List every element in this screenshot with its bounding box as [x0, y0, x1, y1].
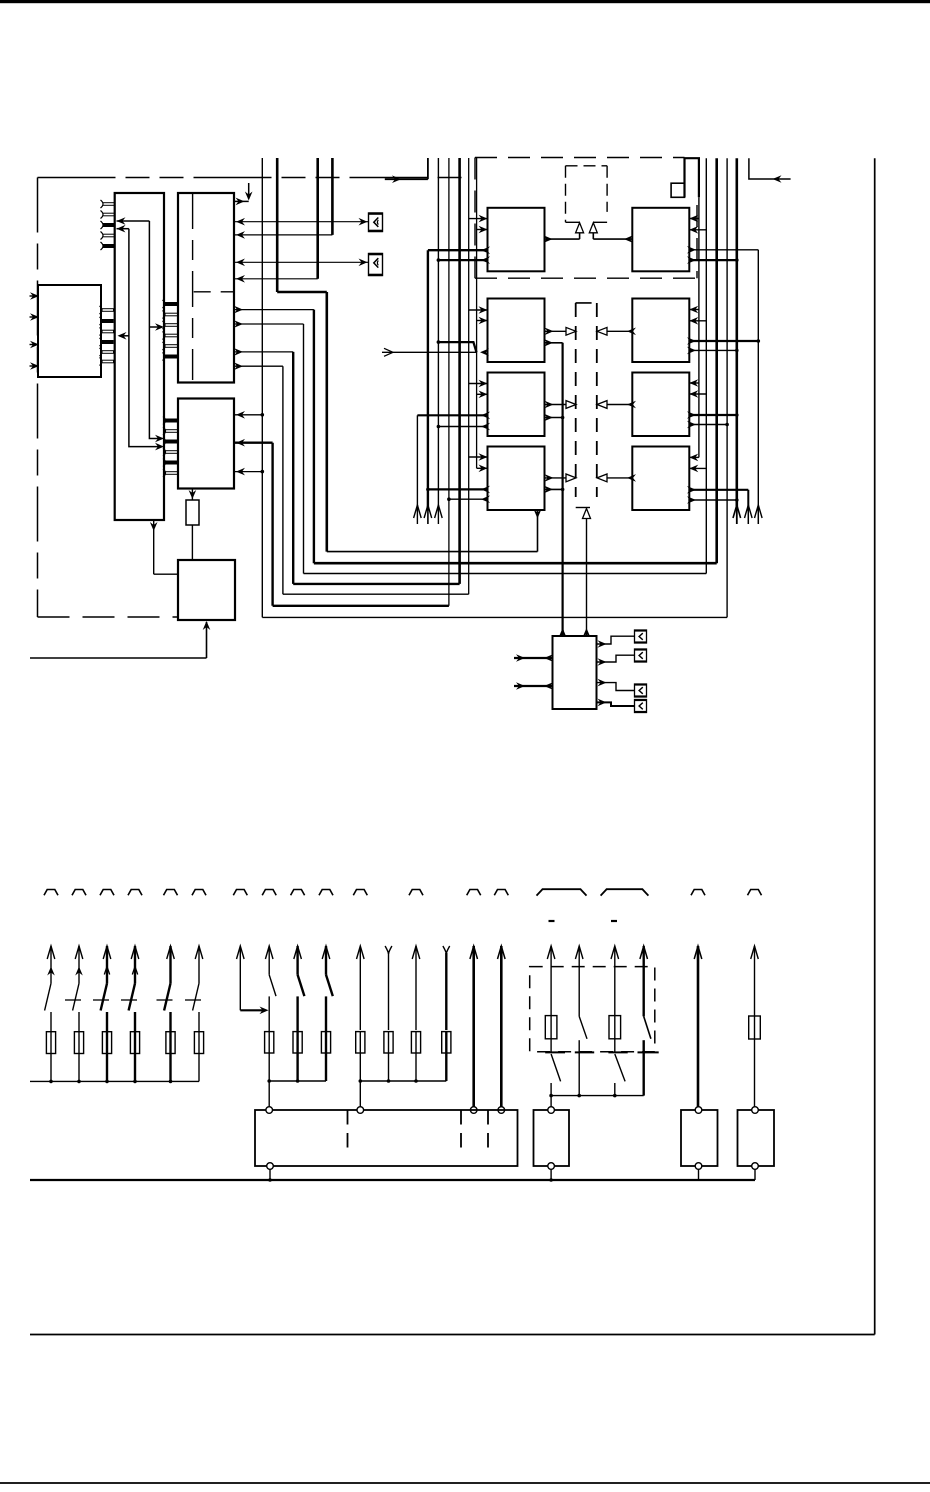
wire F5 riser arrow	[167, 946, 175, 959]
wire into module A6 top 1 thick	[559, 628, 567, 637]
terminal circle on X20 b2	[357, 1107, 364, 1114]
down arrow onto A3 top	[248, 183, 250, 199]
wire F11 riser arrow	[357, 946, 365, 959]
wire relay K3 output a thick	[417, 414, 487, 416]
switch S3 contact tick	[93, 999, 109, 1001]
switch S6 contact tick	[185, 999, 201, 1001]
switch S5 blade	[164, 983, 170, 1010]
wire relay K1 to triangle	[545, 238, 580, 240]
wire F10 riser arrow	[322, 946, 330, 959]
wire relay K8 output a thick	[689, 489, 748, 491]
dashed center top tick	[576, 302, 592, 304]
wide connector half X10	[537, 889, 587, 895]
wire F9 riser arrow	[294, 946, 302, 959]
connector X2 comb on A2 left edge	[101, 200, 115, 250]
wire F3 riser arrow	[103, 946, 111, 959]
connector X1 comb on A1 right edge	[100, 306, 114, 366]
bus wire y584 thick	[293, 583, 459, 585]
wire F19 to bus	[614, 1083, 616, 1096]
right up-arrow head v758	[755, 505, 763, 518]
bus wire y617	[262, 616, 727, 618]
bundle wire v727	[726, 158, 728, 617]
wire input 2 into relay K3	[477, 393, 488, 395]
terminal circle X21 bottom	[548, 1163, 555, 1170]
wire input 2 into relay K6	[689, 320, 706, 322]
bundle wire v438	[437, 158, 439, 511]
wire A3 lower stub 3	[234, 351, 293, 353]
dashed enclosure left module - bottom edge	[38, 616, 179, 618]
polarity tick X10	[549, 920, 555, 922]
bundle wire v428 lower thick	[427, 250, 429, 510]
staircase wire v283	[282, 366, 284, 594]
connector box K11	[635, 684, 647, 697]
wire input 1 into relay K2	[469, 309, 488, 311]
frame right border	[874, 158, 876, 1334]
polarity tick X11	[611, 920, 617, 922]
module A6 box	[553, 636, 597, 709]
fuse F5	[169, 1012, 171, 1032]
bus group D	[551, 1095, 644, 1097]
right up-arrow head v748	[745, 505, 753, 518]
connector half F1 top	[44, 890, 58, 896]
fuse F19	[609, 1016, 621, 1039]
wire input 2 into relay K1	[477, 229, 488, 231]
staircase wire v277 thick	[276, 158, 279, 292]
bundle wire v477	[476, 158, 478, 468]
relay K8 right box	[632, 447, 689, 511]
wire A3 lower stub 2	[234, 323, 304, 325]
inner dashed box top	[566, 165, 608, 167]
dashed divider in X20 c	[487, 1110, 489, 1125]
connector half F4 top	[128, 890, 142, 896]
drop group D to box	[550, 1096, 552, 1107]
dashed divider in X20 b	[460, 1110, 462, 1125]
block A4 box	[178, 399, 234, 489]
wire module A6 out 2	[597, 655, 635, 662]
wire input 2 into relay K2	[477, 320, 488, 322]
wire A4 arrow stub 1	[234, 414, 262, 416]
connector box K12	[635, 700, 647, 713]
wire relay K3 output b	[438, 426, 487, 428]
wire relay K8 output b	[689, 499, 737, 501]
switch S2 contact tick	[65, 999, 81, 1001]
staircase wire v327 thick	[325, 292, 328, 552]
switch S20 blade	[644, 1016, 651, 1038]
ground bus	[30, 1179, 755, 1181]
switch S4 contact tick	[121, 999, 137, 1001]
connector half F15 top	[467, 890, 481, 896]
wire relay K2 feed jog thick	[438, 342, 476, 352]
wire A3 to connector K2	[234, 261, 369, 263]
staircase wire v332 thick	[331, 158, 334, 235]
bundle wire v699	[698, 197, 700, 457]
bundle wire v758	[757, 250, 759, 511]
staircase wire v314 thick	[313, 310, 315, 564]
wire A3 lower stub 4	[234, 365, 283, 367]
wire input 2 into relay K8	[689, 467, 706, 469]
input arrow into A1 pin 3	[30, 344, 39, 346]
connector X4 comb on A4 left edge	[163, 417, 178, 478]
dashed internal divider horizontal in A3	[194, 291, 234, 293]
block A3 box	[178, 193, 234, 383]
staircase corner thick 277-327	[277, 291, 327, 294]
terminal circle X21 top	[548, 1107, 555, 1114]
wire relay K4 output b	[449, 498, 488, 500]
wire resistor R1 to A5 top	[191, 525, 193, 560]
fuse F10	[325, 996, 327, 1031]
dashed divider in X20 a	[347, 1110, 349, 1125]
wire F21 feeder thick	[694, 946, 702, 959]
wire relay K5 output a	[689, 249, 758, 251]
switch S10 blade	[326, 975, 333, 996]
wire A4 arrow stub 2 thick	[234, 442, 273, 444]
dashed switch unit box	[530, 967, 655, 1052]
wire relay K1 output a thick	[428, 249, 488, 251]
wire relay K5 output b thick	[689, 259, 737, 261]
bundle wire v469	[468, 158, 470, 594]
wire F12 riser fork	[385, 946, 392, 954]
wire S20 riser arrow thick	[640, 946, 648, 959]
wire F6 riser arrow	[195, 946, 203, 959]
wire relay K3 tap	[545, 417, 563, 419]
wire A3 stub from thick drop 318	[234, 278, 318, 280]
fuse F2	[78, 1012, 80, 1032]
connector X3 comb on A3 left edge	[163, 300, 179, 361]
switch S1 blade	[45, 983, 51, 1010]
staircase wire v318 thick	[316, 158, 319, 279]
switch S6 blade	[193, 983, 199, 1010]
dashed relay enclosure right	[696, 205, 698, 278]
switch S19 blade lower	[615, 1054, 625, 1081]
connector half F5 top	[164, 890, 178, 896]
bundle wire v428 upper	[427, 158, 429, 179]
wire inside A2 upper-left to lower-right hook	[149, 221, 162, 439]
fuse F4	[134, 1012, 136, 1032]
terminal circle X22 bottom	[695, 1163, 702, 1170]
switch contact tick	[608, 1051, 627, 1053]
staircase wire v293 thick	[292, 352, 294, 584]
connector half F6 top	[192, 890, 206, 896]
drop X21 to ground bus	[550, 1169, 552, 1180]
switch S5 contact tick	[157, 999, 173, 1001]
connector half F3 top	[100, 890, 114, 896]
terminal circle X23 bottom	[752, 1163, 759, 1170]
bundle wire v717 thick	[715, 158, 718, 563]
inner box bottom-left solid	[566, 221, 580, 223]
drop X23 to ground bus	[754, 1169, 756, 1180]
wire F1 riser arrow	[47, 946, 55, 959]
bus group C	[360, 1080, 446, 1082]
wire module A6 out 4 thick	[597, 702, 635, 706]
terminal circle F16	[498, 1107, 505, 1114]
bus wire y563 thick	[314, 562, 717, 565]
wire input 1 into relay K5	[689, 218, 699, 220]
wire module A6 out 3	[597, 683, 635, 691]
inner box bottom-right solid	[593, 221, 607, 223]
wire center to relay K8	[607, 477, 632, 479]
staircase wire v303	[303, 324, 305, 574]
fuse F12	[384, 1032, 393, 1053]
wire input 1 into relay K6	[689, 309, 699, 311]
wire inside A2 second hook to A1 comb	[129, 229, 162, 447]
drop X20 to ground bus	[269, 1169, 271, 1180]
bus group A	[30, 1080, 199, 1082]
inner dashed box left	[565, 166, 567, 223]
switch S9 blade	[298, 975, 305, 996]
switch S3 blade	[101, 983, 107, 1010]
relay K5 right box	[632, 208, 689, 271]
terminal circle X23 top	[752, 1107, 759, 1114]
wire F16 feeder thick	[498, 946, 506, 959]
frame bottom border	[30, 1334, 875, 1336]
bundle wire v737 thick	[735, 158, 738, 510]
fuse F17	[545, 1016, 557, 1039]
dashed relay enclosure bottom	[475, 277, 697, 279]
switch S18 blade	[579, 1016, 587, 1038]
junction box X22	[681, 1110, 718, 1166]
input arrow into A1 pin 4	[30, 365, 39, 367]
wire relay K6 output a thick	[689, 340, 758, 342]
bus wire y552	[327, 551, 538, 553]
relay K1 left box	[488, 208, 545, 271]
terminal circle X20 bottom	[267, 1163, 274, 1170]
fuse F8	[268, 996, 270, 1031]
wire into module A6 top 2	[583, 628, 591, 637]
resistor R1	[186, 500, 199, 525]
wire input 1 into relay K4	[469, 456, 488, 458]
dashed relay enclosure left	[474, 158, 476, 279]
wire input 1 into relay K1	[469, 218, 488, 220]
wire A3 lower stub 1	[234, 309, 314, 311]
switch S17 blade lower	[551, 1054, 561, 1081]
dashed center line left	[575, 303, 577, 497]
terminal circle F15	[470, 1107, 477, 1114]
connector half F22 top	[748, 890, 762, 896]
control unit A1 box	[38, 285, 101, 377]
bus group B	[269, 1080, 326, 1082]
wire F8 riser arrow	[265, 946, 273, 959]
page top bar	[0, 0, 930, 3]
fuse F13	[411, 1032, 420, 1053]
relay K6 right box	[632, 299, 689, 363]
center bottom tick	[576, 507, 590, 509]
dashed relay enclosure top	[475, 157, 685, 159]
open triangle up bottom	[583, 509, 591, 519]
wire relay K6 output b	[689, 349, 737, 351]
left up-arrow head v417	[414, 505, 422, 518]
bus wire y594	[283, 593, 469, 595]
connector notch box top right	[685, 158, 699, 197]
connector half F21 top	[691, 890, 705, 896]
left up-arrow head v438	[435, 505, 443, 518]
bundle wire v748	[747, 490, 749, 511]
wire A3 to connector K1	[234, 221, 369, 223]
wire relay K4 output to center	[545, 477, 567, 479]
wire F17 to bus	[550, 1083, 552, 1096]
connector box K9	[635, 630, 647, 643]
bundle wire v460 thick	[458, 158, 461, 584]
wire input 1 into relay K8	[689, 456, 699, 458]
block A2 box	[115, 193, 164, 520]
wire F22 riser arrow	[751, 946, 759, 959]
wire F15 feeder thick	[470, 946, 478, 959]
connector half F8 top	[262, 890, 276, 896]
wire A4 arrow stub 3	[234, 471, 262, 473]
open triangle up left	[576, 223, 584, 233]
wire A3 stub from thick drop 332	[234, 234, 332, 236]
fuse F1	[50, 1012, 52, 1032]
fuse F11	[356, 1032, 365, 1053]
wire A2 bottom to A5 left side	[153, 520, 155, 574]
input arrow into A1 pin 1	[30, 295, 39, 297]
wire center to relay K6	[607, 330, 632, 332]
drop group B to junction box	[268, 1081, 270, 1107]
wire incoming arrow top right	[749, 158, 791, 179]
left up-arrow head v428	[424, 505, 432, 518]
wire relay K4 bottom drop	[537, 510, 539, 552]
wire module A6 out 1	[597, 636, 635, 644]
block A5 box	[178, 560, 235, 620]
wire relay K2 output to center	[545, 330, 567, 332]
wire S20 to bus thick	[643, 1040, 645, 1095]
switch contact tick	[575, 1051, 594, 1053]
wire relay K4 output a thick	[428, 488, 488, 490]
bundle wire v417	[416, 415, 418, 510]
input arrow into A1 pin 2	[30, 316, 39, 318]
wire F7 riser with L to S8	[237, 946, 245, 959]
wire F19 riser arrow	[611, 946, 619, 959]
junction box X20	[255, 1110, 518, 1166]
wire center to relay K7	[607, 404, 632, 406]
wire input 1 into relay K3	[469, 383, 488, 385]
connector half F16 top	[494, 890, 508, 896]
switch S2 blade	[73, 983, 79, 1010]
dashed center line right	[596, 303, 598, 497]
connector half F11 top	[353, 890, 367, 896]
fuse F22	[749, 1016, 761, 1039]
wire F2 riser arrow	[75, 946, 83, 959]
wire input 2 into relay K5	[689, 229, 706, 231]
bundle wire v706	[705, 158, 707, 573]
long wire into relay K2	[382, 351, 476, 353]
wire center to module	[586, 519, 588, 635]
bus wire y574	[304, 573, 707, 575]
inner dashed box right	[606, 166, 608, 212]
relay K7 right box	[632, 373, 689, 437]
wire relay K5 to triangle	[593, 238, 632, 240]
wire F4 riser arrow	[131, 946, 139, 959]
connector half F10 top	[319, 890, 333, 896]
staircase wire v272 thick	[271, 443, 273, 606]
fuse F14	[442, 1032, 451, 1053]
wide connector half X11	[601, 889, 649, 895]
wire A4 bottom to resistor R1	[191, 489, 193, 500]
connector half F7 top	[233, 890, 247, 896]
dashed enclosure left module - left edge	[37, 178, 39, 618]
wire relay K2 tap to module thick	[545, 342, 563, 344]
wire incoming arrow to staircase vertical	[385, 178, 428, 180]
junction box X21	[534, 1110, 570, 1166]
drop group C to junction box	[359, 1081, 361, 1107]
terminal circle on X20 b1	[266, 1107, 273, 1114]
wire relay K7 output a thick	[689, 414, 737, 416]
connector half F9 top	[291, 890, 305, 896]
fuse F6	[198, 1012, 200, 1032]
wire input 2 into relay K7	[689, 393, 706, 395]
fuse F3	[106, 1012, 108, 1032]
staircase wire v262	[261, 158, 263, 617]
relay K2 left box	[488, 299, 545, 363]
drop X22 to ground bus	[698, 1169, 700, 1180]
terminal circle X22 top	[695, 1107, 702, 1114]
switch contact tick	[638, 1051, 659, 1053]
wire into module A6 left 1	[514, 657, 553, 659]
bundle wire v449	[448, 158, 450, 606]
switch contact tick	[545, 1051, 565, 1053]
connector box K10	[635, 649, 647, 662]
wire into module A6 left 2	[514, 685, 553, 687]
wire S18 to bus	[578, 1040, 580, 1095]
connector box K2	[369, 254, 383, 276]
connector half F13 top	[409, 890, 423, 896]
relay K4 left box	[488, 447, 545, 511]
wire input 1 into relay K7	[689, 382, 699, 384]
ground feed bus into A5 bottom	[30, 657, 207, 659]
open triangle up right	[589, 223, 597, 233]
connector notch small box	[671, 183, 684, 197]
wire F17 riser arrow	[547, 946, 555, 959]
wire relay K7 output b	[689, 424, 727, 426]
wire S18 riser arrow	[575, 946, 583, 959]
wire relay K4 tap	[545, 488, 563, 490]
bus wire y606 thick	[273, 605, 449, 607]
footer rule	[0, 1482, 930, 1484]
relay K3 left box	[488, 373, 545, 437]
switch S4 blade	[129, 983, 135, 1010]
connector box K1	[369, 213, 383, 232]
switch S8 blade	[269, 975, 276, 996]
wire F13 riser arrow	[412, 946, 420, 959]
junction box X23	[738, 1110, 775, 1166]
wire input 2 into relay K4	[477, 467, 488, 469]
fuse F9	[296, 996, 298, 1031]
wire F14 riser fork	[443, 946, 450, 954]
wire relay K3 output to center	[545, 404, 567, 406]
dashed enclosure left module - top edge	[38, 177, 471, 179]
wire relay K1 output b thick	[438, 259, 487, 261]
connector half F2 top	[72, 890, 86, 896]
dashed internal divider vertical in A3	[192, 193, 194, 380]
right up-arrow head v737	[733, 505, 741, 518]
